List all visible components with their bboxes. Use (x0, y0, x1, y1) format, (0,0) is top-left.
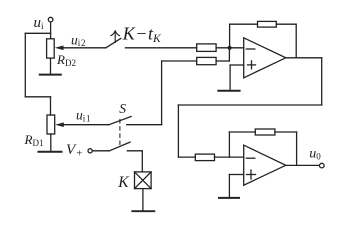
svg-text:S: S (119, 101, 126, 116)
op-amp U1 plus (248, 64, 256, 66)
wire (24, 33, 26, 97)
wire (228, 132, 230, 157)
wire (228, 48, 230, 61)
wire (286, 164, 320, 166)
ground (218, 90, 239, 92)
svg-text:ui: ui (34, 15, 45, 31)
op-amp U1 minus (246, 48, 255, 50)
wire (178, 104, 321, 106)
wire (228, 175, 230, 198)
feedback resistor RF2 (255, 129, 275, 135)
wire (178, 156, 195, 158)
op-amp U2 plus (247, 174, 256, 176)
ground (219, 197, 239, 199)
terminal ui (48, 17, 53, 22)
op-amp U2 (244, 145, 286, 185)
wire (141, 151, 143, 172)
switch K blade (109, 142, 130, 151)
terminal V+ (88, 149, 92, 153)
svg-text:ui 2: ui 2 (71, 33, 86, 49)
potentiometer RD1 (47, 115, 55, 134)
ground (39, 151, 62, 153)
op-amp U2 minus (246, 157, 255, 159)
wire (229, 65, 231, 90)
terminal u0 (320, 163, 325, 168)
resistor R2 (197, 57, 216, 64)
wire (50, 22, 52, 39)
ground (132, 210, 154, 212)
wire (161, 61, 163, 125)
svg-text:V+: V+ (66, 142, 82, 159)
wire (50, 134, 52, 151)
wire (229, 131, 255, 133)
wire (25, 32, 50, 34)
wiper arrow ui2 (55, 46, 64, 51)
wire (162, 60, 197, 62)
wire (177, 105, 179, 157)
dashed gang link (119, 120, 121, 148)
wire (127, 150, 142, 152)
wire (50, 58, 52, 74)
wire (296, 132, 298, 165)
svg-text:ui 1: ui 1 (76, 108, 91, 124)
wire (275, 131, 297, 133)
wire (92, 150, 109, 152)
switch S blade (109, 117, 131, 125)
wire (321, 58, 323, 105)
wire (25, 96, 50, 98)
wire (295, 24, 297, 58)
relay coil K (135, 172, 152, 189)
wire (215, 156, 244, 158)
wire (63, 124, 109, 126)
wire (63, 47, 106, 49)
wiper arrow ui1 (55, 122, 64, 127)
wire (286, 57, 322, 59)
wire (50, 97, 52, 115)
wire (127, 124, 162, 126)
node junction dot (228, 46, 232, 50)
ground (40, 74, 61, 76)
svg-text:K: K (117, 174, 129, 191)
wire (125, 47, 196, 49)
wire (229, 24, 231, 48)
switch K-tK actuation arrow (111, 31, 120, 43)
op-amp U1 (244, 38, 286, 78)
svg-text:u0: u0 (309, 147, 321, 162)
potentiometer RD2 (47, 39, 55, 58)
wire (230, 23, 258, 25)
wire (276, 23, 296, 25)
svg-text:RD2: RD2 (56, 52, 76, 68)
wire (216, 47, 244, 49)
wire (216, 60, 229, 62)
feedback resistor RF1 (258, 21, 277, 27)
switch K-tK blade (106, 38, 121, 47)
resistor R1 (197, 44, 216, 52)
wire (229, 174, 243, 176)
resistor R3 (195, 154, 214, 161)
wire (230, 64, 244, 66)
svg-text:K − tK: K − tK (122, 23, 162, 45)
svg-text:RD1: RD1 (24, 132, 44, 148)
wire (142, 189, 144, 211)
